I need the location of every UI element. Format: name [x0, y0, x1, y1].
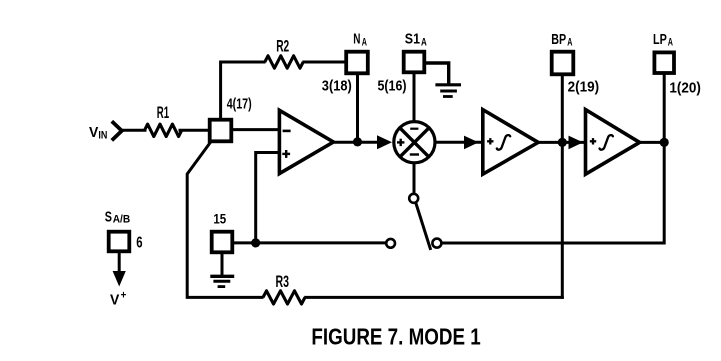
label VIN	[89, 124, 107, 141]
svg-text:R1: R1	[157, 104, 169, 122]
svg-text:FIGURE 7. MODE 1: FIGURE 7. MODE 1	[311, 324, 480, 350]
wire R2 to pin NA	[302, 61, 345, 64]
svg-text:A: A	[567, 37, 572, 49]
svg-text:+: +	[121, 289, 127, 301]
svg-text:A: A	[668, 37, 673, 49]
arrow SA/B to V+	[118, 252, 121, 274]
svg-text:S: S	[105, 208, 112, 225]
resistor R2	[265, 56, 303, 68]
svg-text:N: N	[353, 31, 360, 48]
arrow into summer	[377, 135, 392, 149]
integrator U3	[586, 110, 640, 175]
wire BPA vertical down to R3 line	[561, 76, 564, 299]
wire node4 diagonal to left feedback down to R3	[187, 142, 263, 298]
wire node4 up and over to R2	[221, 62, 266, 120]
arrow into integrator 2	[569, 136, 584, 150]
junction dot pin15 node	[251, 238, 260, 247]
summer S1 circle with X	[394, 122, 435, 163]
label LPA	[653, 31, 673, 49]
svg-text:V: V	[110, 292, 119, 309]
svg-text:5(16): 5(16)	[378, 78, 407, 95]
switch blade	[416, 203, 431, 250]
label SA/B	[105, 208, 131, 225]
wire op-amp noninverting input from pin15 node	[256, 153, 280, 244]
wire summer bottom to switch pole	[413, 164, 416, 194]
wire R3 to BP vertical	[304, 296, 564, 299]
arrow into integrator 1	[464, 136, 479, 150]
pin S1A box	[404, 52, 425, 73]
svg-text:2(19): 2(19)	[568, 78, 600, 95]
label V+	[110, 289, 126, 308]
wire S1A to ground	[425, 63, 449, 84]
pin 15 box	[212, 232, 233, 253]
pin BPA box	[552, 52, 574, 75]
wire summer to integrator 1	[436, 141, 483, 144]
label NA	[353, 31, 367, 49]
pin LPA box	[654, 52, 674, 73]
node box pin 4(17)	[210, 120, 232, 142]
integrator U2	[483, 110, 538, 175]
ground at pin 15	[210, 253, 234, 287]
junction dot LP node	[660, 138, 669, 147]
svg-text:6: 6	[136, 235, 142, 252]
wire R1 to node 4	[179, 129, 210, 132]
svg-text:15: 15	[213, 211, 226, 227]
wire node4 to op-amp inverting input	[232, 128, 280, 131]
ground at S1A	[435, 85, 461, 97]
label S1A	[405, 31, 427, 49]
wire pin15 node to switch left contact	[234, 241, 387, 244]
wire LPA vertical and feedback to switch	[441, 75, 664, 244]
resistor R1	[145, 124, 182, 136]
label BPA	[551, 31, 572, 49]
op-amp U1	[279, 110, 333, 173]
svg-text:V: V	[89, 124, 98, 141]
switch right contact circle	[432, 239, 441, 248]
pin NA box	[346, 52, 368, 74]
resistor R3	[263, 291, 305, 304]
svg-text:A: A	[362, 37, 367, 49]
svg-text:BP: BP	[551, 31, 566, 48]
switch left contact circle	[386, 239, 395, 248]
pin SA/B box	[109, 232, 130, 252]
junction dot op-amp output	[353, 137, 362, 146]
svg-text:S1: S1	[405, 31, 420, 48]
switch S1 pole circle	[409, 194, 418, 203]
junction dot BP node	[558, 138, 567, 147]
svg-text:LP: LP	[653, 31, 667, 48]
input chevron VIN	[112, 121, 122, 140]
svg-text:R3: R3	[276, 273, 290, 291]
wire integrator1 to integrator2	[538, 141, 585, 144]
svg-text:A: A	[421, 37, 427, 49]
wire VIN to R1	[121, 129, 147, 132]
svg-text:IN: IN	[98, 130, 107, 142]
wire op-amp output to summer	[332, 141, 379, 144]
svg-text:A/B: A/B	[113, 214, 131, 226]
svg-text:R2: R2	[276, 37, 289, 55]
svg-text:1(20): 1(20)	[669, 80, 701, 97]
wire integrator2 to LP node	[639, 141, 665, 144]
svg-text:4(17): 4(17)	[227, 96, 252, 113]
wire S1A down to summer	[413, 73, 416, 122]
svg-text:3(18): 3(18)	[322, 78, 352, 95]
wire NA down to op-amp output node	[356, 74, 359, 142]
